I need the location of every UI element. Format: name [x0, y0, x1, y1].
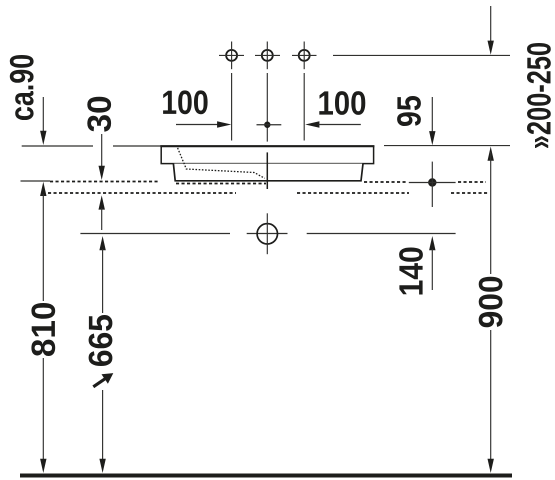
dimension 100 right arrow	[305, 121, 361, 127]
dashed counter bottom line left	[48, 192, 236, 194]
node centre dot on hole-2 extension	[264, 122, 270, 128]
faucet hole circle 2	[255, 42, 280, 70]
crosshair of centre dot	[257, 124, 282, 126]
label »200-250	[527, 43, 551, 148]
dashed counter top line under bowl	[176, 183, 266, 185]
label 665	[89, 315, 113, 366]
extension line hole 3	[303, 73, 305, 141]
dashed counter bottom line right	[451, 192, 488, 194]
basin centre line	[266, 152, 268, 189]
label 140	[399, 248, 423, 295]
crosshair of wall reference dot	[409, 162, 456, 207]
dimension ca.90 arrow	[40, 97, 46, 145]
label 100 right	[319, 91, 365, 115]
label ca.90	[10, 55, 34, 120]
label 100 left	[163, 90, 208, 114]
faucet hole circle 3	[292, 42, 317, 70]
dashed counter top line right	[364, 181, 407, 183]
basin hidden contour	[178, 148, 265, 178]
dashed counter top line right of dot	[458, 181, 486, 183]
faucet hole circle 1	[219, 42, 244, 70]
basin bowl	[173, 164, 363, 181]
extension line hole 1	[231, 73, 233, 141]
dimension 810 line	[21, 181, 51, 473]
dimension 100 left arrow	[176, 121, 231, 127]
dashed counter top line left	[50, 181, 160, 183]
extension line at faucet-hole level	[333, 54, 510, 56]
label 95	[397, 96, 421, 126]
dimension »200-250 upper arrow	[488, 6, 494, 55]
dimension 140 arrow	[429, 236, 435, 290]
dashed counter bottom line middle	[297, 192, 409, 194]
label 900	[479, 277, 503, 328]
label 810	[31, 303, 55, 356]
extension line hole 2	[266, 73, 268, 142]
label 30	[87, 97, 111, 132]
adjustability arrow symbol	[92, 373, 113, 388]
dimension 665 line	[99, 236, 105, 473]
dimension 95 arrow	[429, 97, 435, 145]
floor line	[20, 474, 512, 478]
dimension 900 line	[488, 147, 494, 474]
dimension 30 arrows	[99, 134, 105, 230]
extension line at rim level left	[22, 145, 161, 147]
extension line at rim level right	[384, 145, 510, 147]
drain circle	[257, 213, 277, 254]
wall reference dot	[428, 178, 436, 186]
basin rim	[161, 146, 373, 163]
extension line at drain level	[80, 233, 455, 235]
